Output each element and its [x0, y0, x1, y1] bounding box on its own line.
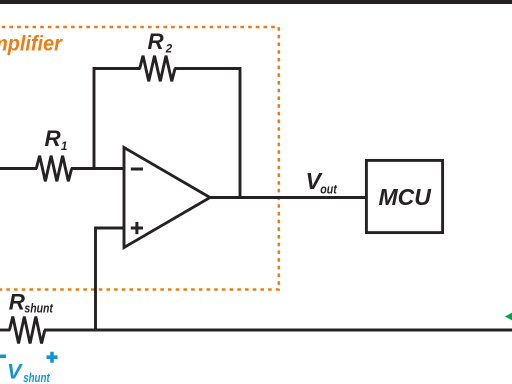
svg-text:R: R [45, 126, 62, 151]
wire non-inverting input to shunt node [96, 228, 125, 330]
Vshunt minus polarity sign [0, 355, 6, 359]
Vshunt plus polarity sign [47, 352, 58, 363]
op-amp [124, 148, 210, 248]
wire input to R1 [0, 167, 37, 170]
svg-text:out: out [320, 181, 337, 196]
svg-text:shunt: shunt [24, 301, 53, 315]
svg-text:Amplifier: Amplifier [0, 33, 64, 56]
wire shunt rail to right edge [44, 329, 512, 332]
svg-text:2: 2 [165, 44, 173, 56]
svg-text:V: V [7, 360, 23, 384]
svg-text:shunt: shunt [23, 371, 50, 384]
wire bottom left to Rshunt [0, 329, 10, 332]
current direction arrow (green) [505, 312, 512, 321]
svg-text:1: 1 [61, 141, 67, 153]
wire output (op-amp to MCU) [210, 196, 366, 199]
resistor Rshunt [10, 317, 45, 344]
top figure border line [0, 0, 512, 4]
resistor R1 [36, 156, 71, 182]
svg-text:R: R [9, 290, 26, 315]
resistor R2 [140, 56, 175, 82]
svg-text:R: R [148, 29, 165, 54]
wire R1 to inverting input (node A) [71, 167, 124, 170]
op-amp inverting pin minus sign [131, 168, 143, 171]
wire feedback left (node A to R2) [94, 69, 141, 171]
svg-text:MCU: MCU [379, 184, 433, 210]
amplifier dashed boundary box [0, 27, 279, 290]
op-amp non-inverting pin plus sign [131, 222, 143, 234]
MCU box [366, 160, 442, 232]
wire feedback right (R2 to output node) [174, 69, 240, 198]
